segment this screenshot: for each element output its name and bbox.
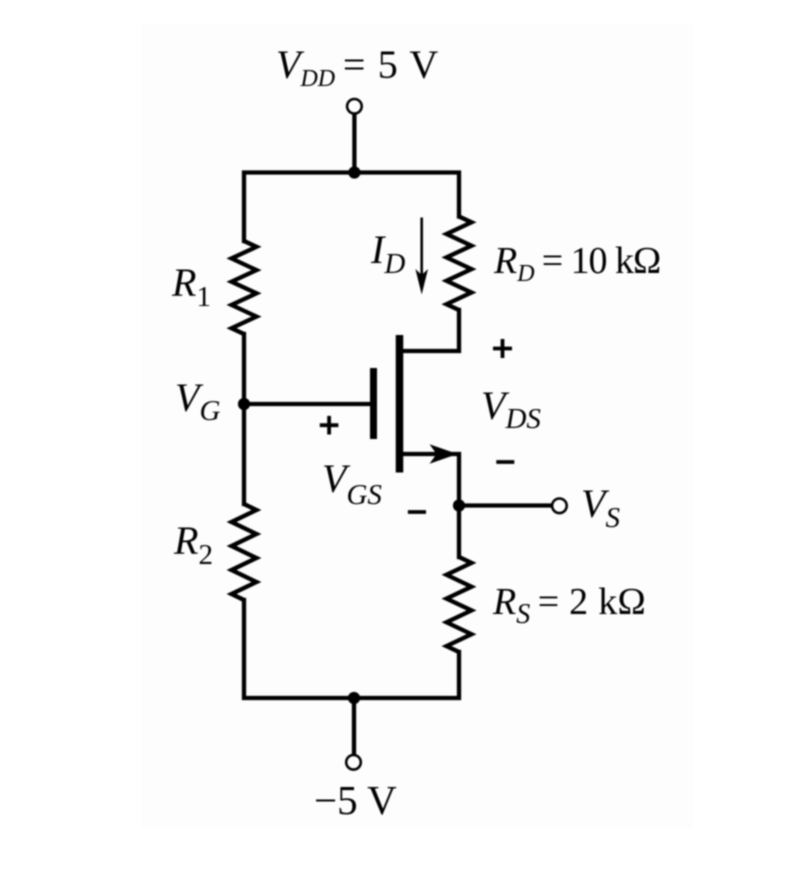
transistor Q1 gate bar xyxy=(370,368,377,439)
resistor R2 xyxy=(232,504,257,600)
terminal circle VDD xyxy=(347,99,362,114)
svg-text:= 10 kΩ: = 10 kΩ xyxy=(542,240,662,282)
resistor RD xyxy=(447,217,472,311)
transistor Q1 source arrowhead xyxy=(430,444,458,463)
wire left middle (R1 bottom to R2 top) xyxy=(242,334,246,504)
wire VDD stub xyxy=(352,114,356,173)
scan background tint xyxy=(141,24,694,828)
wire bottom rail with left and right rises xyxy=(244,600,459,698)
label plus VGS xyxy=(320,416,339,435)
svg-text:= 5 V: = 5 V xyxy=(343,42,439,87)
resistor RS xyxy=(447,557,472,652)
wire gate lead xyxy=(244,402,370,406)
resistor R1 xyxy=(232,241,257,334)
wire -5V stub xyxy=(352,698,356,755)
transistor Q1 channel bar xyxy=(396,335,404,473)
label minus VGS xyxy=(408,510,426,514)
wire source lead xyxy=(403,454,459,557)
node dot VDD junction xyxy=(348,166,360,178)
node dot -5V junction xyxy=(348,692,360,704)
svg-text:= 2 kΩ: = 2 kΩ xyxy=(538,581,646,623)
wire drain lead xyxy=(403,310,459,351)
current ID arrow xyxy=(420,218,423,285)
wire top rail with left and right drops xyxy=(244,173,459,242)
terminal circle -5V xyxy=(346,755,361,770)
node dot VG xyxy=(238,398,250,410)
label plus VDS xyxy=(493,339,512,358)
wire VS lead xyxy=(459,503,552,507)
svg-text:−5 V: −5 V xyxy=(314,777,397,823)
node dot VS xyxy=(453,499,465,511)
terminal circle VS xyxy=(552,499,567,514)
label minus VDS xyxy=(496,460,514,464)
